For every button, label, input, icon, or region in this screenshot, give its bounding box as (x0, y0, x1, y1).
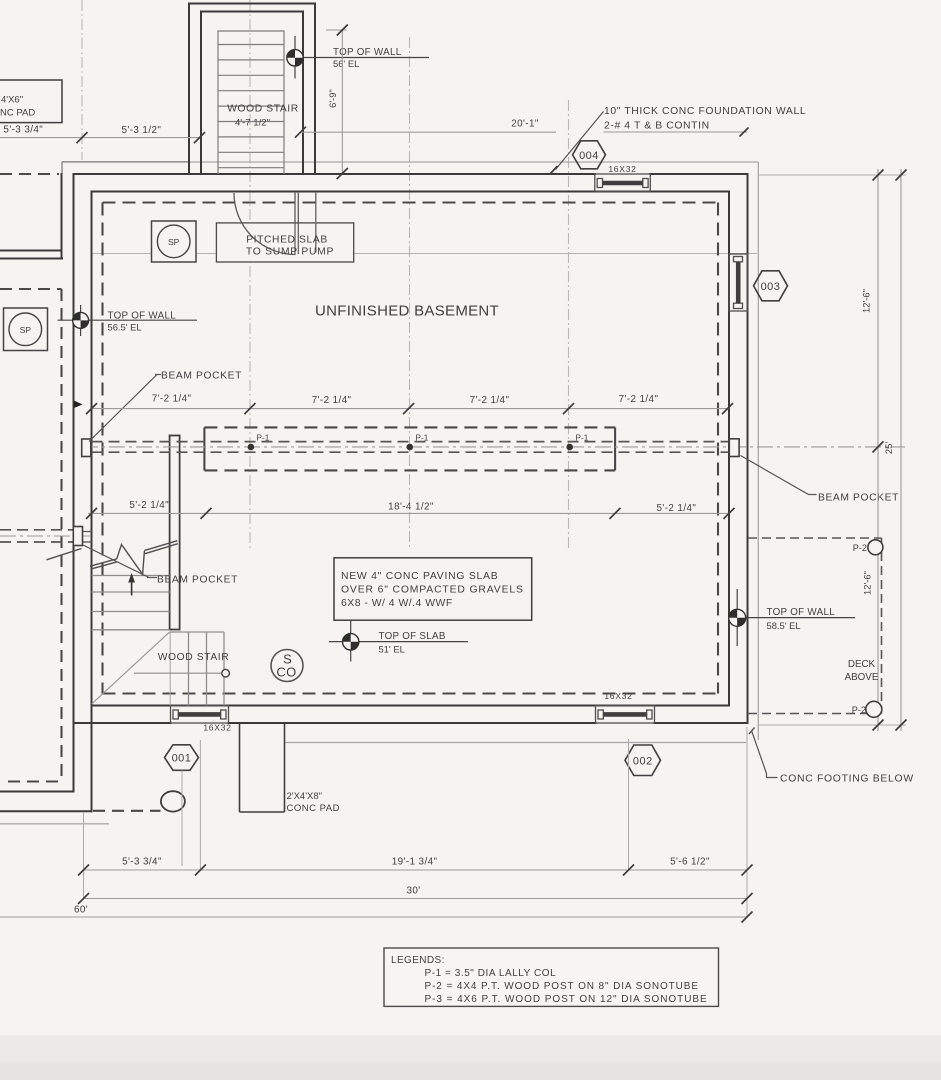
sonotube circle P-3 bottom left (161, 791, 185, 811)
hexagon tag 003 (754, 271, 788, 301)
hexagon tag 002 (625, 745, 661, 776)
svg-text:P-1: P-1 (257, 434, 270, 443)
svg-text:4'-7 1/2": 4'-7 1/2" (235, 118, 270, 129)
svg-text:CONC FOOTING BELOW: CONC FOOTING BELOW (780, 774, 914, 785)
svg-text:7'-2 1/4": 7'-2 1/4" (470, 395, 510, 406)
window W4 right wall (729, 254, 748, 311)
elevation marker M2 top of wall 56.5' (58, 305, 198, 336)
window W3 bottom wall right 16X32 (596, 706, 655, 724)
svg-text:001: 001 (172, 753, 192, 765)
grid centerline D (x=568.5) (568, 100, 570, 548)
svg-text:20'-1": 20'-1" (511, 119, 539, 130)
svg-text:16X32: 16X32 (604, 691, 632, 701)
stair treads (top stair) (218, 44, 284, 46)
conc footing below label with leader (752, 731, 778, 778)
foundation wall bottom outer (74, 722, 171, 724)
window W1 top wall 16X32 (595, 174, 651, 192)
svg-text:P-2: P-2 (853, 543, 867, 553)
beam pocket label right with leader (741, 456, 817, 495)
svg-text:OVER 6" COMPACTED GRAVELS: OVER 6" COMPACTED GRAVELS (341, 585, 524, 596)
left addition south wall (0, 791, 74, 793)
dimension row D: 5'-2 1/4" / 18'-4 1/2" / 5'-2 1/4" (y=513.4) (88, 512, 729, 514)
svg-text:56.5' EL: 56.5' EL (108, 322, 142, 333)
left addition east wall (61, 174, 63, 259)
svg-text:ABOVE: ABOVE (845, 672, 879, 683)
svg-text:5'-2 1/4": 5'-2 1/4" (129, 500, 169, 511)
svg-text:WOOD STAIR: WOOD STAIR (158, 652, 230, 663)
svg-text:UNFINISHED BASEMENT: UNFINISHED BASEMENT (315, 303, 499, 320)
svg-text:P-1 = 3.5" DIA LALLY COL: P-1 = 3.5" DIA LALLY COL (425, 968, 557, 979)
svg-text:TOP OF WALL: TOP OF WALL (767, 607, 836, 618)
sump pump box SP 1 (152, 221, 197, 262)
svg-text:002: 002 (633, 756, 653, 768)
S/CO cleanout symbol (271, 650, 303, 682)
legends box (384, 948, 719, 1006)
svg-text:004: 004 (579, 150, 599, 162)
beam edge dashed lines wall to wall (92, 442, 730, 453)
new slab note box (334, 558, 532, 620)
svg-text:6X8 - W/ 4 W/.4 WWF: 6X8 - W/ 4 W/.4 WWF (341, 598, 453, 609)
svg-text:TO SUMP PUMP: TO SUMP PUMP (246, 247, 334, 258)
dimension 6'-9" vertical at stair (326, 25, 348, 180)
dimension 20'-1" (y=132.2) (301, 131, 557, 133)
beam pocket label lower-left with leader (82, 545, 149, 578)
svg-text:19'-1 3/4": 19'-1 3/4" (392, 857, 438, 868)
dimension row E: 5'-3 3/4" / 19'-1 3/4" / 5'-6 1/2" (y=870) (84, 869, 748, 871)
beam pocket label upper-left with leader (89, 375, 157, 442)
foundation wall top inner (92, 191, 730, 193)
deck post P-2 lower (866, 701, 882, 717)
lally column P-1 c (566, 444, 573, 451)
stair side wall in basement (170, 436, 180, 630)
svg-text:2-# 4 T & B CONTIN: 2-# 4 T & B CONTIN (604, 121, 710, 132)
deck post P-2 upper (868, 540, 883, 555)
wood stair tread box (218, 31, 284, 174)
interior footing dashed rectangle right (717, 203, 719, 694)
svg-text:SP: SP (20, 325, 32, 335)
exterior footing line top (y=162) (62, 161, 758, 163)
stair rail line with post circle (134, 672, 222, 674)
left addition footing dashed north (0, 288, 62, 290)
beam dashed outline (204, 427, 615, 470)
exterior footing line bottom-left (y=824) (0, 823, 109, 825)
svg-text:P-1: P-1 (416, 434, 429, 443)
door swing arc (234, 193, 296, 255)
break line left (outside wall) (47, 549, 82, 560)
svg-text:7'-2 1/4": 7'-2 1/4" (619, 394, 659, 405)
svg-text:NEW 4" CONC PAVING SLAB: NEW 4" CONC PAVING SLAB (341, 571, 498, 582)
svg-text:16X32: 16X32 (608, 164, 636, 174)
svg-text:25': 25' (883, 442, 894, 454)
svg-text:12'-6": 12'-6" (861, 289, 872, 313)
dimension row A: 5'-3 3/4" / 5'-3 1/2" (y=137.6) (0, 137, 200, 139)
sump pump box SP 2 (left addition) (4, 308, 48, 351)
svg-text:DECK: DECK (848, 659, 876, 670)
svg-text:CO: CO (276, 665, 296, 680)
right dimension line 25' (x=901) (900, 169, 902, 731)
dashed line to sonotube circle (93, 810, 161, 812)
svg-text:5'-3 3/4": 5'-3 3/4" (3, 125, 43, 136)
dimension row F: 30' (y=898.5) (84, 898, 748, 900)
dimension row C: four 7'-2 1/4" (y=408.6) (92, 408, 730, 410)
wood stair enclosure outer wall (189, 4, 315, 175)
svg-text:WOOD STAIR: WOOD STAIR (227, 104, 299, 115)
svg-text:TOP OF SLAB: TOP OF SLAB (379, 631, 446, 642)
svg-text:7'-2 1/4": 7'-2 1/4" (312, 395, 352, 406)
dashed wall line top-left outside (0, 173, 59, 175)
svg-text:58.5' EL: 58.5' EL (767, 620, 801, 631)
svg-text:P-2 = 4X4 P.T. WOOD POST ON 8": P-2 = 4X4 P.T. WOOD POST ON 8" DIA SONOT… (425, 981, 699, 992)
svg-text:P-3 = 4X6 P.T. WOOD POST ON 12: P-3 = 4X6 P.T. WOOD POST ON 12" DIA SONO… (425, 994, 708, 1005)
foundation wall note (551, 106, 807, 174)
wall section cut triangle on left wall (74, 401, 83, 409)
foundation wall right outer (747, 174, 749, 723)
stair direction arrow (131, 581, 133, 596)
break line zigzag across stair (90, 541, 178, 575)
svg-text:5'-6 1/2": 5'-6 1/2" (670, 857, 710, 868)
svg-text:BEAM POCKET: BEAM POCKET (161, 371, 242, 382)
svg-text:P-1: P-1 (576, 434, 589, 443)
conc pad bottom 2'X4'X8" (240, 723, 285, 812)
hexagon tag 004 (573, 141, 606, 169)
grid line horizontal (y=253.5) (92, 253, 757, 255)
svg-text:18'-4 1/2": 18'-4 1/2" (388, 502, 434, 513)
svg-text:7'-2 1/4": 7'-2 1/4" (152, 394, 192, 405)
beam centerline (82, 446, 905, 448)
right dimension line 12'-6"+12'-6" (x=878) (877, 169, 879, 731)
svg-text:5'-3 1/2": 5'-3 1/2" (122, 125, 162, 136)
conc pad top-left 4'X6" (0, 80, 62, 123)
interior footing dashed rectangle left (101, 203, 103, 694)
svg-text:16X32: 16X32 (203, 723, 231, 733)
svg-text:TOP OF WALL: TOP OF WALL (333, 47, 402, 58)
grid centerline B (x=250) (249, 0, 251, 548)
svg-text:56' EL: 56' EL (333, 58, 359, 69)
lally column P-1 a (248, 444, 255, 451)
lower stair run (92, 576, 225, 706)
svg-text:PITCHED SLAB: PITCHED SLAB (246, 235, 328, 246)
hexagon tag 001 (165, 745, 199, 771)
svg-text:12'-6": 12'-6" (862, 571, 873, 595)
elevation marker M3 top of wall 58.5' (right) (729, 589, 855, 646)
bottom extension lines (84, 727, 748, 918)
grid centerline A (x=82) (81, 0, 83, 160)
dimension row G: 60' (y=917) (0, 916, 747, 918)
svg-text:BEAM POCKET: BEAM POCKET (818, 493, 899, 504)
foundation wall top outer (74, 173, 595, 175)
wood stair enclosure inner wall (201, 12, 303, 175)
exterior footing line right (x=758.3) (757, 162, 759, 740)
svg-text:6'-9": 6'-9" (327, 89, 338, 108)
svg-text:30': 30' (406, 886, 420, 897)
svg-text:003: 003 (761, 281, 781, 293)
svg-text:P-2: P-2 (852, 705, 866, 715)
interior footing dashed rectangle bottom (103, 692, 719, 694)
svg-text:LEGENDS:: LEGENDS: (391, 955, 445, 966)
beam pocket right (729, 439, 739, 457)
foundation wall right inner (728, 192, 730, 706)
pitched slab note box (216, 223, 353, 262)
interior footing dashed rectangle top (103, 201, 719, 203)
svg-text:2'X4'X8": 2'X4'X8" (287, 791, 323, 802)
stair wall extension below top wall (315, 192, 317, 253)
deck above dashed outline (748, 538, 882, 714)
svg-text:60': 60' (74, 905, 88, 916)
svg-text:CONC PAD: CONC PAD (287, 803, 340, 814)
foundation wall bottom inner (92, 705, 730, 707)
foundation wall left outer (73, 174, 75, 792)
svg-text:5'-3 3/4": 5'-3 3/4" (122, 857, 162, 868)
door leaf at stair base (295, 192, 298, 254)
svg-text:BEAM POCKET: BEAM POCKET (157, 575, 238, 586)
window W2 bottom wall left 16X32 (171, 706, 229, 724)
grid centerline C (x=409.5) (409, 37, 411, 548)
right side extension lines (758, 175, 906, 725)
beam pocket left upper (82, 439, 91, 457)
left addition footing dashed south (8, 780, 62, 782)
door leaf lines over box (234, 193, 298, 255)
svg-text:NC PAD: NC PAD (0, 108, 35, 119)
stair diagonal (92, 632, 170, 704)
svg-text:10" THICK CONC FOUNDATION WALL: 10" THICK CONC FOUNDATION WALL (604, 106, 806, 117)
left addition footing dashed east (60, 289, 62, 782)
beam continuation into left addition (0, 530, 92, 542)
lally column P-1 b (407, 444, 414, 451)
svg-text:5'-2 1/4": 5'-2 1/4" (657, 503, 697, 514)
beam pocket left lower (73, 527, 82, 546)
svg-text:TOP OF WALL: TOP OF WALL (108, 311, 177, 322)
svg-text:51' EL: 51' EL (379, 644, 405, 655)
svg-text:SP: SP (168, 237, 180, 247)
exterior footing line top-left darker segment (62, 161, 190, 163)
exterior footing line bottom (y=742.5) (285, 742, 747, 744)
foundation wall left inner (91, 192, 93, 812)
upper stair treads (92, 575, 170, 577)
svg-text:4'X6": 4'X6" (1, 95, 23, 106)
elevation marker M1 top of wall 56' (287, 36, 429, 79)
elevation marker M4 top of slab 51' (329, 620, 468, 661)
